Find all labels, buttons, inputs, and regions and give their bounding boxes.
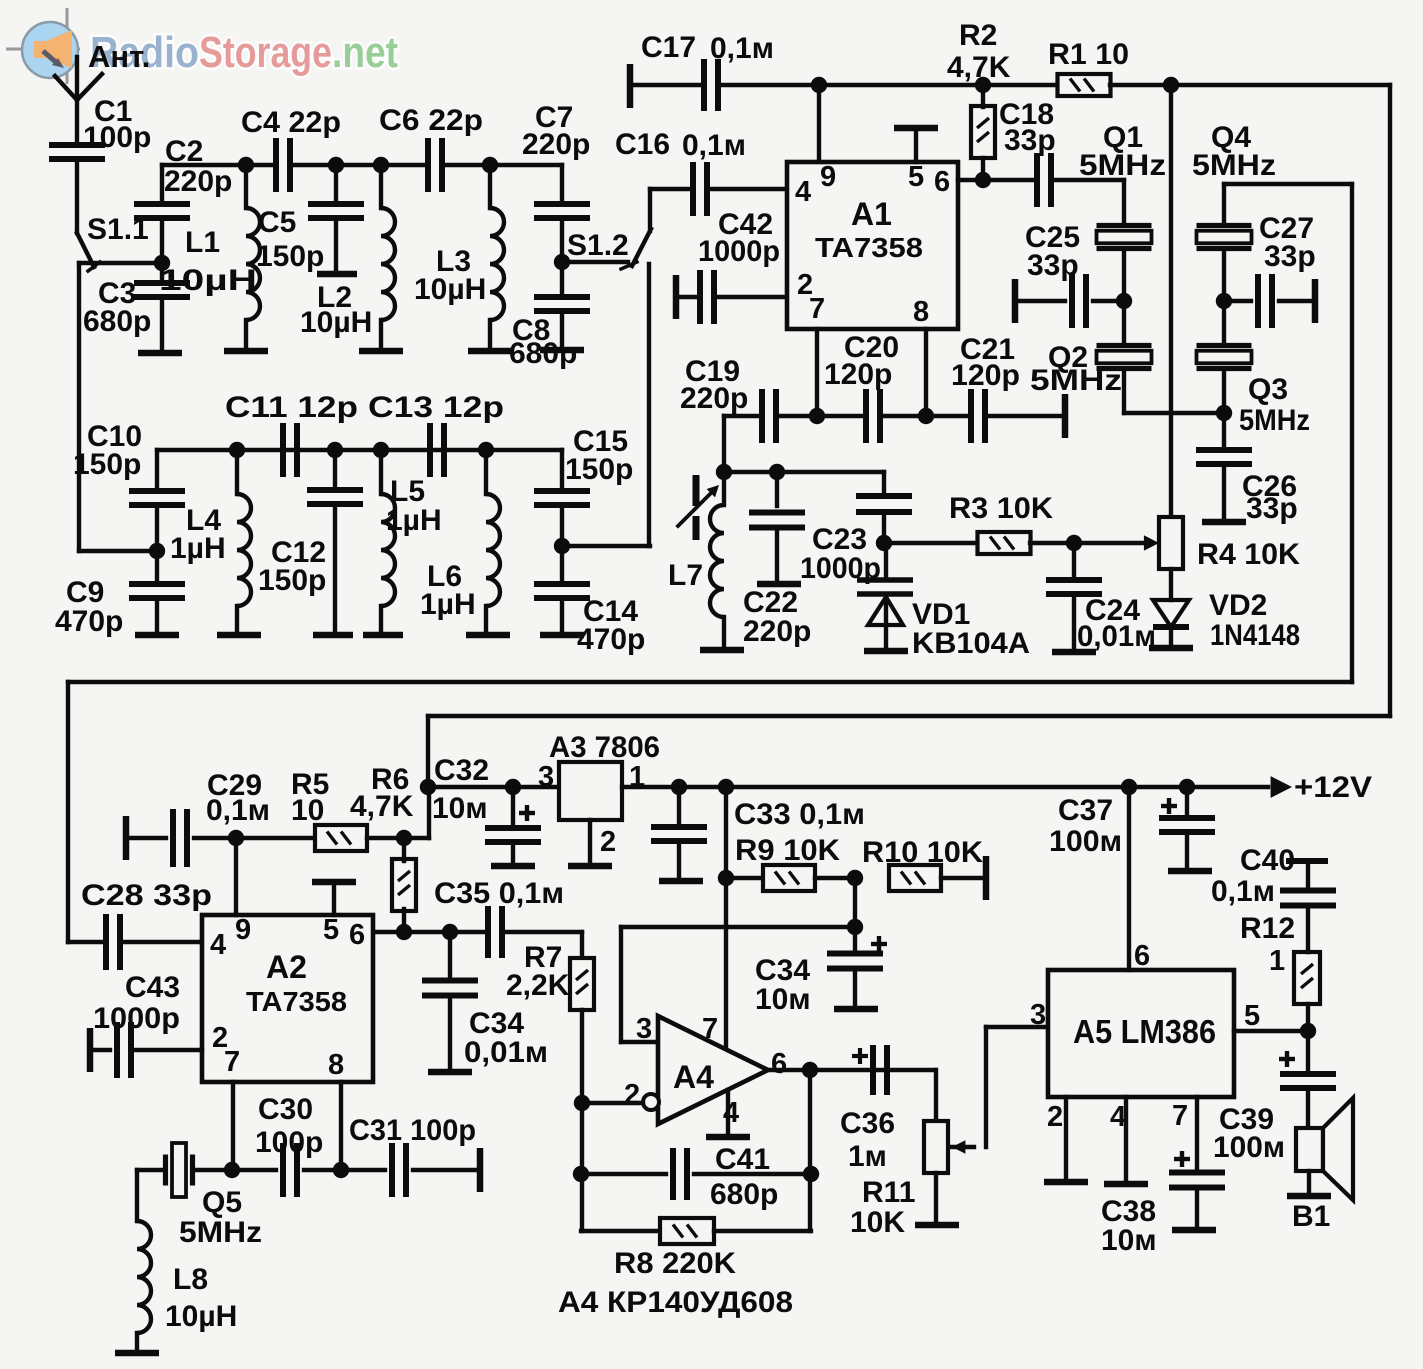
svg-text:TA7358: TA7358: [815, 232, 923, 263]
svg-text:C36: C36: [840, 1107, 895, 1140]
svg-text:C32: C32: [434, 754, 489, 787]
svg-text:A2: A2: [266, 949, 307, 985]
svg-text:C33 0,1м: C33 0,1м: [734, 798, 865, 831]
svg-text:100м: 100м: [1049, 825, 1122, 858]
svg-text:C4 22p: C4 22p: [241, 106, 341, 139]
svg-text:6: 6: [934, 166, 950, 198]
svg-text:100p: 100p: [255, 1126, 323, 1159]
svg-text:1000p: 1000p: [93, 1002, 180, 1035]
svg-text:C11 12p: C11 12p: [225, 391, 358, 424]
svg-text:C40: C40: [1240, 844, 1295, 877]
svg-text:680p: 680p: [710, 1178, 778, 1211]
svg-text:5MHz: 5MHz: [179, 1216, 262, 1249]
svg-text:4,7K: 4,7K: [350, 790, 414, 823]
svg-text:1000p: 1000p: [800, 552, 881, 585]
svg-text:4: 4: [1110, 1101, 1126, 1133]
svg-text:Ант.: Ант.: [88, 39, 150, 74]
svg-text:3: 3: [538, 761, 554, 793]
svg-text:120p: 120p: [951, 359, 1020, 392]
svg-text:0,1м: 0,1м: [710, 32, 774, 65]
svg-text:C31 100p: C31 100p: [349, 1114, 476, 1147]
svg-text:7: 7: [224, 1046, 240, 1078]
svg-text:KB104A: KB104A: [912, 627, 1030, 660]
svg-text:4,7K: 4,7K: [947, 51, 1011, 84]
svg-text:680p: 680p: [509, 337, 577, 370]
svg-text:150p: 150p: [256, 240, 324, 273]
svg-text:6: 6: [349, 919, 365, 951]
svg-text:7: 7: [702, 1013, 718, 1045]
svg-text:S1.2: S1.2: [567, 229, 629, 262]
svg-text:C17: C17: [641, 31, 696, 64]
svg-text:1м: 1м: [848, 1140, 887, 1173]
svg-text:1µH: 1µH: [386, 504, 442, 537]
svg-text:R11: R11: [862, 1176, 915, 1209]
svg-text:0,01м: 0,01м: [464, 1036, 548, 1069]
svg-text:150p: 150p: [565, 453, 633, 486]
svg-text:5: 5: [1244, 1000, 1260, 1032]
svg-text:33p: 33p: [1004, 124, 1056, 157]
svg-text:10м: 10м: [432, 792, 488, 825]
svg-text:Storage: Storage: [199, 28, 332, 77]
svg-text:0,1м: 0,1м: [206, 794, 270, 827]
svg-text:220p: 220p: [680, 382, 748, 415]
svg-text:B1: B1: [1292, 1200, 1330, 1233]
svg-text:3: 3: [636, 1013, 652, 1045]
svg-text:+12V: +12V: [1294, 771, 1372, 804]
svg-text:6: 6: [771, 1048, 787, 1080]
svg-text:R12: R12: [1240, 912, 1295, 945]
svg-text:10: 10: [291, 794, 324, 827]
svg-text:33p: 33p: [1027, 249, 1079, 282]
svg-text:9: 9: [820, 161, 836, 193]
svg-text:6: 6: [1134, 940, 1150, 972]
svg-text:R3 10K: R3 10K: [949, 492, 1053, 525]
svg-text:2: 2: [624, 1079, 640, 1111]
svg-text:2,2K: 2,2K: [506, 969, 570, 1002]
svg-text:A5 LM386: A5 LM386: [1073, 1013, 1216, 1050]
svg-text:680p: 680p: [83, 305, 151, 338]
svg-text:A4 КР140УД608: A4 КР140УД608: [558, 1286, 793, 1319]
svg-text:C2: C2: [165, 135, 203, 168]
svg-text:R4 10K: R4 10K: [1197, 538, 1300, 571]
svg-text:1µH: 1µH: [170, 532, 226, 565]
svg-text:5MHz: 5MHz: [1239, 404, 1310, 437]
svg-text:33p: 33p: [1246, 492, 1298, 525]
svg-text:7: 7: [809, 293, 825, 325]
svg-text:0,1м: 0,1м: [1211, 875, 1275, 908]
svg-text:10µH: 10µH: [414, 273, 486, 306]
svg-text:R2: R2: [959, 19, 997, 52]
svg-text:220p: 220p: [164, 165, 232, 198]
svg-text:Q5: Q5: [202, 1186, 242, 1219]
svg-text:10м: 10м: [755, 983, 811, 1016]
svg-text:0,01м: 0,01м: [1077, 620, 1156, 653]
svg-text:R10 10K: R10 10K: [862, 836, 983, 869]
svg-text:1N4148: 1N4148: [1210, 619, 1300, 652]
svg-text:C13 12p: C13 12p: [368, 391, 504, 424]
svg-text:470p: 470p: [577, 623, 645, 656]
svg-text:220p: 220p: [743, 615, 811, 648]
svg-text:1000p: 1000p: [698, 235, 780, 268]
svg-text:R9 10K: R9 10K: [735, 834, 840, 867]
svg-text:470p: 470p: [55, 605, 123, 638]
svg-text:4: 4: [723, 1097, 739, 1129]
svg-text:1: 1: [1269, 945, 1285, 977]
svg-text:7: 7: [1172, 1100, 1188, 1132]
svg-text:C6 22p: C6 22p: [379, 104, 483, 137]
svg-text:9: 9: [235, 914, 251, 946]
svg-text:A4: A4: [673, 1059, 714, 1095]
svg-text:L7: L7: [668, 559, 703, 592]
svg-text:5MHz: 5MHz: [1192, 149, 1276, 182]
svg-text:C5: C5: [258, 206, 296, 239]
svg-text:TA7358: TA7358: [246, 986, 347, 1017]
svg-text:100м: 100м: [1213, 1131, 1285, 1164]
svg-text:1: 1: [629, 761, 645, 793]
svg-text:1µH: 1µH: [420, 588, 476, 621]
svg-text:C41: C41: [715, 1143, 770, 1176]
svg-text:.net: .net: [332, 28, 398, 77]
svg-text:2: 2: [1047, 1101, 1063, 1133]
svg-text:150p: 150p: [258, 564, 326, 597]
svg-text:C30: C30: [258, 1093, 313, 1126]
svg-text:R1 10: R1 10: [1048, 38, 1129, 71]
svg-text:C35 0,1м: C35 0,1м: [434, 877, 564, 910]
svg-text:8: 8: [913, 296, 929, 328]
svg-text:A3 7806: A3 7806: [549, 731, 660, 764]
svg-text:10м: 10м: [1101, 1224, 1157, 1257]
svg-text:4: 4: [210, 929, 226, 961]
svg-text:8: 8: [328, 1049, 344, 1081]
svg-text:120p: 120p: [824, 358, 892, 391]
svg-text:A1: A1: [851, 196, 892, 232]
svg-text:5: 5: [908, 161, 924, 193]
svg-text:150p: 150p: [73, 448, 141, 481]
svg-text:220p: 220p: [522, 128, 590, 161]
svg-text:L8: L8: [173, 1263, 208, 1296]
svg-text:L1: L1: [185, 226, 220, 259]
svg-text:3: 3: [1030, 999, 1046, 1031]
svg-text:C37: C37: [1058, 794, 1113, 827]
svg-text:C16: C16: [615, 128, 670, 161]
svg-text:2: 2: [600, 826, 616, 858]
svg-text:10µH: 10µH: [165, 1300, 237, 1333]
svg-text:S1.1: S1.1: [87, 213, 149, 246]
svg-text:5MHz: 5MHz: [1079, 149, 1166, 182]
svg-text:10K: 10K: [850, 1206, 905, 1239]
svg-text:Q3: Q3: [1248, 373, 1288, 406]
svg-text:R8 220K: R8 220K: [614, 1247, 736, 1280]
svg-text:10µH: 10µH: [300, 306, 372, 339]
svg-text:100p: 100p: [83, 121, 151, 154]
svg-text:10µH: 10µH: [159, 264, 257, 297]
svg-text:C43: C43: [125, 971, 180, 1004]
svg-text:C28 33p: C28 33p: [81, 879, 212, 912]
svg-text:33p: 33p: [1264, 240, 1316, 273]
svg-text:0,1м: 0,1м: [682, 129, 746, 162]
svg-text:5MHz: 5MHz: [1030, 364, 1122, 397]
svg-text:4: 4: [795, 176, 811, 208]
svg-text:5: 5: [323, 914, 339, 946]
svg-text:VD2: VD2: [1209, 589, 1267, 622]
